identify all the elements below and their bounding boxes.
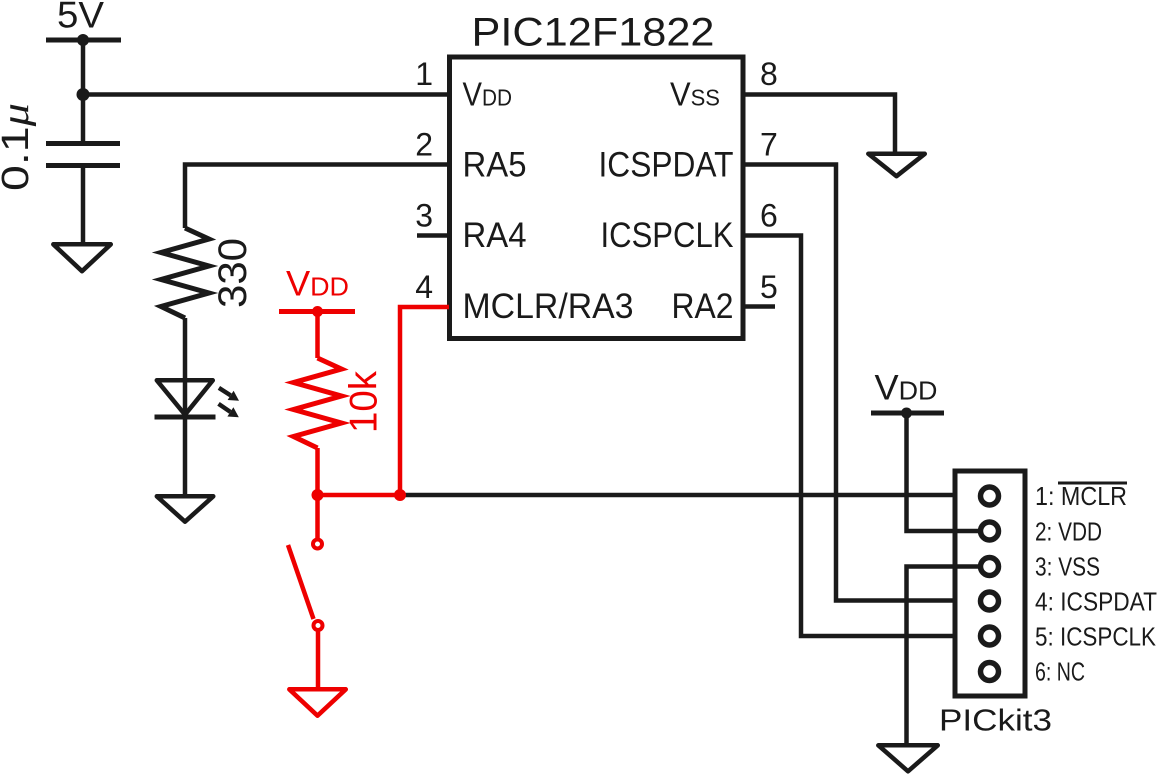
- wire node to pin 1 VDD: [83, 92, 449, 97]
- PICkit pin circle 2: [981, 522, 999, 540]
- LED D1 cathode bar: [155, 415, 216, 420]
- ground under PICkit: [878, 745, 938, 771]
- svg-text:PIC12F1822: PIC12F1822: [472, 11, 715, 55]
- overline MCLR: [1058, 482, 1127, 485]
- svg-text:ICSPDAT: ICSPDAT: [599, 145, 734, 185]
- ground under LED: [157, 496, 214, 521]
- wire node A to pin 4 MCLR: [400, 307, 449, 495]
- wire PICkit pin 3 VSS to ground: [907, 567, 979, 744]
- junction dot node A right: [394, 489, 406, 501]
- wire capacitor to ground: [81, 166, 86, 243]
- power VDD bar right: [871, 411, 944, 416]
- capacitor C1 0.1u plates: [46, 141, 120, 146]
- svg-text:4: ICSPDAT: 4: ICSPDAT: [1035, 587, 1157, 617]
- junction dot VDD right: [901, 408, 912, 419]
- wire pin 7 ICSPDAT to PICkit pin 4: [743, 165, 978, 601]
- wire pin 6 ICSPCLK to PICkit pin 5: [743, 236, 978, 637]
- junction dot node A left: [312, 489, 324, 501]
- PICkit pin circle 4: [981, 592, 999, 610]
- svg-text:6: NC: 6: NC: [1035, 657, 1085, 687]
- svg-text:330: 330: [211, 238, 255, 308]
- resistor R2 10k: [294, 358, 342, 448]
- wire 5V down: [81, 40, 86, 143]
- wire pin 8 VSS to ground: [743, 95, 895, 152]
- svg-text:MCLR/RA3: MCLR/RA3: [463, 286, 634, 326]
- svg-text:3: 3: [415, 198, 433, 234]
- svg-text:0.1μ: 0.1μ: [0, 103, 37, 191]
- node junction to VDD pin1: [77, 88, 90, 101]
- svg-text:RA5: RA5: [463, 145, 527, 185]
- svg-text:5: 5: [760, 269, 778, 305]
- svg-text:ICSPCLK: ICSPCLK: [601, 215, 734, 255]
- wire switch to ground: [316, 631, 321, 688]
- svg-text:5: ICSPCLK: 5: ICSPCLK: [1035, 622, 1157, 652]
- IC U1 PIC12F1822 body: [450, 57, 744, 339]
- wire resistor to LED: [183, 318, 188, 417]
- svg-text:4: 4: [415, 269, 433, 305]
- LED D1 light arrow 1: [219, 388, 239, 401]
- wire VDD to PICkit pin 2: [907, 413, 979, 531]
- svg-text:PICkit3: PICkit3: [939, 704, 1052, 738]
- svg-text:8: 8: [760, 56, 778, 92]
- wire node A to switch: [315, 495, 320, 539]
- resistor R1 330: [161, 228, 209, 318]
- svg-text:1: MCLR: 1: MCLR: [1035, 481, 1127, 511]
- svg-text:5V: 5V: [57, 0, 104, 36]
- power VDD bar red: [279, 309, 355, 314]
- svg-text:7: 7: [760, 127, 778, 163]
- svg-text:2: 2: [415, 127, 433, 163]
- switch SW1 top contact: [313, 540, 322, 549]
- PICkit pin circle 1: [981, 487, 999, 505]
- ground under switch: [289, 689, 346, 715]
- ground under VSS: [868, 154, 925, 176]
- PICkit pin circle 5: [981, 627, 999, 645]
- LED D1 light arrow 2: [219, 404, 239, 418]
- wire resistor R2 to node A: [315, 448, 320, 495]
- svg-text:2: VDD: 2: VDD: [1035, 517, 1102, 547]
- wire node A to PICkit pin 1: [400, 493, 978, 498]
- svg-text:VDD: VDD: [875, 369, 938, 408]
- wire LED to ground: [183, 417, 188, 494]
- power 5V bar: [46, 38, 121, 43]
- junction dot VDD red: [312, 306, 323, 317]
- svg-text:VDD: VDD: [286, 265, 349, 304]
- LED D1 triangle: [157, 380, 213, 414]
- svg-text:1: 1: [415, 56, 433, 92]
- switch SW1 bottom contact: [314, 621, 323, 630]
- PICkit pin circle 3: [981, 558, 999, 576]
- switch SW1 lever: [288, 545, 314, 619]
- junction dot at 5V bar: [77, 34, 89, 46]
- svg-text:RA2: RA2: [672, 286, 734, 326]
- svg-text:RA4: RA4: [463, 215, 527, 255]
- svg-text:10k: 10k: [343, 371, 386, 433]
- wire node A red segment: [318, 493, 401, 498]
- PICkit pin circle 6: [981, 663, 999, 681]
- svg-text:3: VSS: 3: VSS: [1035, 552, 1100, 582]
- ground under capacitor: [53, 244, 111, 271]
- wire VDD to resistor R2: [315, 312, 320, 359]
- svg-text:6: 6: [760, 198, 778, 234]
- PICkit3 connector box: [955, 471, 1025, 696]
- wire pin 2 RA5 to LED branch: [185, 165, 449, 229]
- pin 5 stub: [743, 304, 775, 309]
- pin 3 stub: [417, 233, 449, 238]
